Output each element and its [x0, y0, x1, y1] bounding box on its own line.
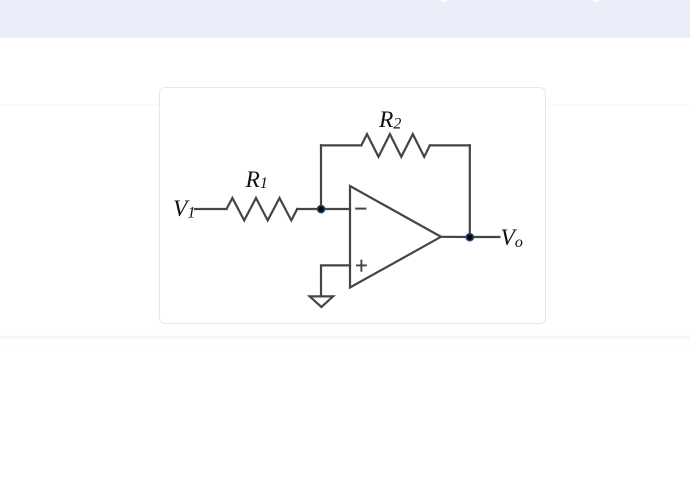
node B output junction [466, 234, 473, 241]
op-amp minus pin mark [356, 208, 365, 210]
svg-text:V1: V1 [173, 196, 195, 222]
wire op-amp output [441, 236, 470, 238]
ground [310, 296, 333, 307]
faint lower band [0, 328, 690, 352]
wire feedback top left [321, 144, 361, 146]
resistor R1 [227, 198, 298, 220]
node A inverting input junction [318, 206, 325, 213]
white tab nub 2 [592, 0, 601, 2]
wire V1 input [195, 208, 227, 210]
svg-text:Vo: Vo [501, 225, 523, 251]
wire output to Vo [470, 236, 500, 238]
top header band [0, 0, 690, 38]
wire feedback top right [430, 144, 470, 146]
wire feedback vertical right [469, 145, 471, 237]
faint row divider lower [0, 336, 690, 338]
svg-text:R2: R2 [378, 107, 401, 133]
white tab nub 1 [440, 0, 449, 2]
faint row divider upper [0, 104, 690, 106]
resistor R2 [361, 134, 430, 157]
op-amp U1 [350, 186, 441, 288]
op-amp plus pin mark [357, 261, 366, 271]
wire non-inverting input [321, 265, 350, 295]
schematic panel card [159, 87, 546, 324]
svg-text:R1: R1 [245, 167, 268, 193]
wire R1 to inverting node [297, 208, 350, 210]
wire feedback vertical left [320, 145, 322, 209]
